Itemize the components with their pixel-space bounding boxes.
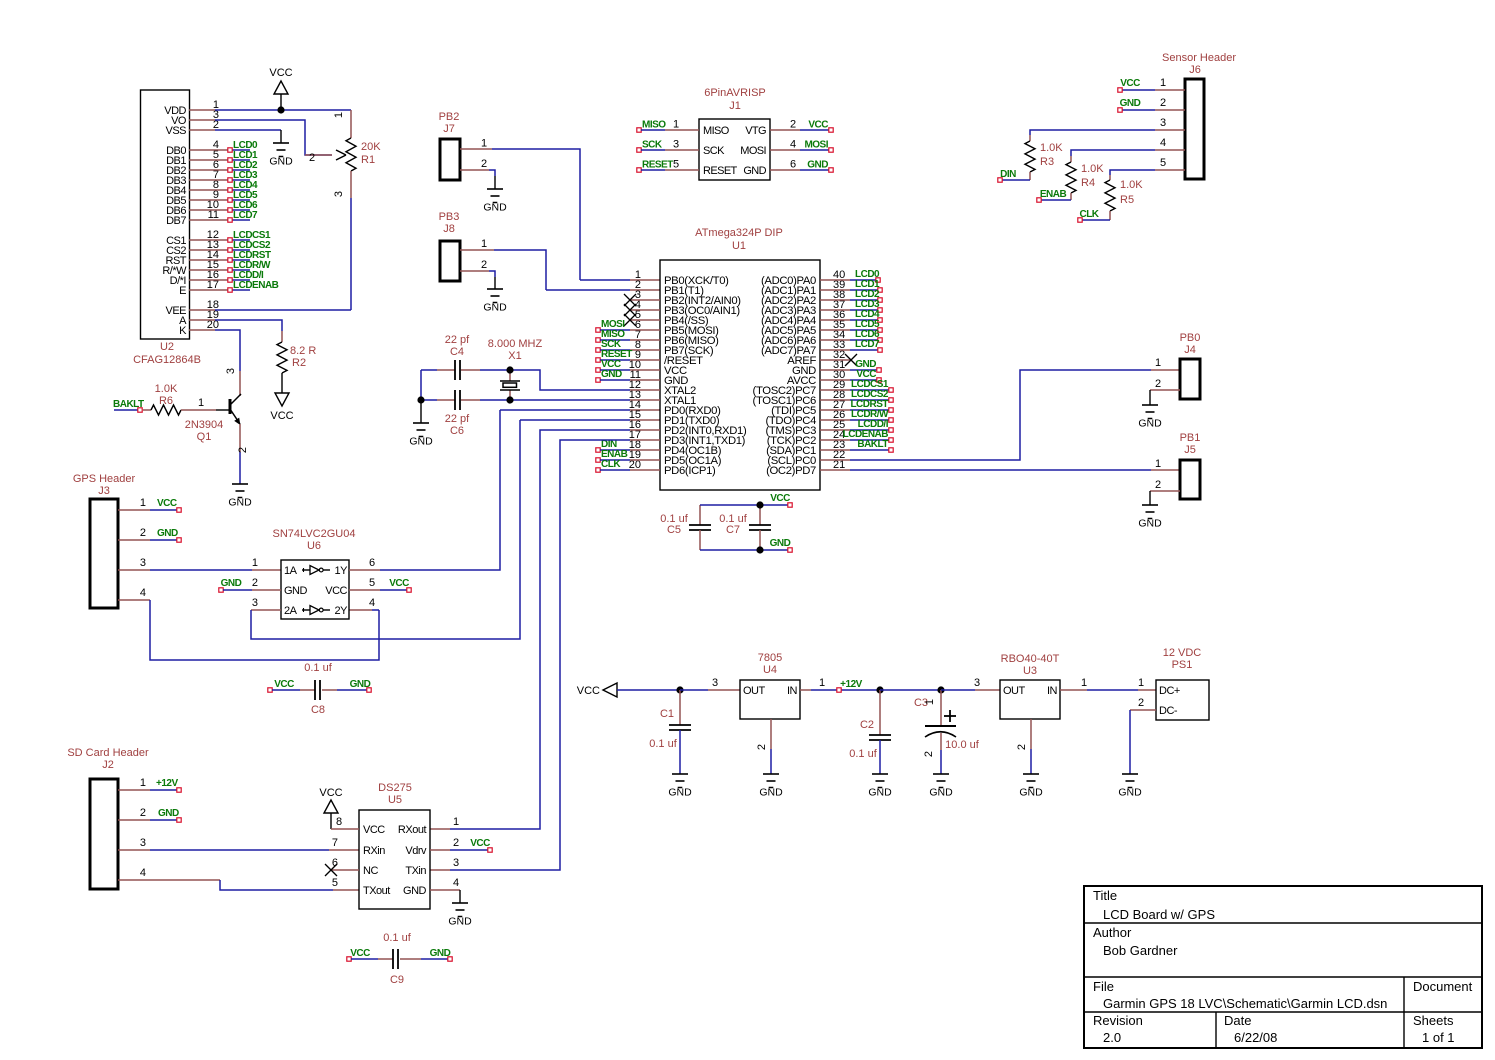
svg-text:6PinAVRISP: 6PinAVRISP <box>704 87 766 99</box>
ground symbol at Q1 emitter <box>232 483 248 485</box>
power symbol VCC arrow at regulator output <box>577 683 680 697</box>
svg-text:1A: 1A <box>284 565 298 577</box>
wire J6 pin2 / net GND <box>1118 97 1185 112</box>
svg-text:4: 4 <box>140 867 146 879</box>
svg-text:3: 3 <box>673 139 679 151</box>
svg-text:Q1: Q1 <box>197 431 212 443</box>
svg-text:3: 3 <box>140 557 146 569</box>
title block frame <box>1084 886 1482 1048</box>
junction at C6/ground <box>417 396 424 403</box>
svg-text:VCC: VCC <box>577 685 600 697</box>
svg-text:File: File <box>1093 979 1114 994</box>
regulator U4 7805 body <box>740 652 800 719</box>
wire U3 IN pin1 to PS1 DC+ pin1 <box>1060 677 1156 690</box>
svg-text:2: 2 <box>237 447 249 453</box>
wire U1 stub / net LCD0 <box>820 269 880 282</box>
wire J3 pin1 / net VCC <box>118 497 181 512</box>
capacitor C6 22pf <box>445 390 470 437</box>
U2 pin names <box>162 105 187 337</box>
no-connect X at U1 pin 4 <box>624 304 660 316</box>
svg-text:U4: U4 <box>763 664 777 676</box>
svg-text:GND: GND <box>743 165 766 177</box>
svg-text:RXin: RXin <box>363 845 385 857</box>
svg-text:1: 1 <box>453 816 459 828</box>
wire U2 pin stub / net LCD4 <box>189 180 258 192</box>
wire U2 pin stub / net LCD6 <box>189 200 258 212</box>
capacitor C2 0.1uf <box>849 690 891 774</box>
svg-text:R5: R5 <box>1120 194 1134 206</box>
inverter U6 SN74LVC2GU04 body <box>273 528 356 619</box>
svg-text:2: 2 <box>790 119 796 131</box>
svg-text:DC+: DC+ <box>1159 685 1180 697</box>
wire J1 pin 2 / net VCC <box>770 119 833 133</box>
svg-text:Author: Author <box>1093 925 1132 940</box>
junction at C2 <box>876 686 883 693</box>
svg-text:J6: J6 <box>1189 64 1201 76</box>
svg-text:2.0: 2.0 <box>1103 1030 1121 1045</box>
wire XTAL1 pin13 to crystal and C6 <box>421 399 660 401</box>
svg-text:2: 2 <box>756 744 768 750</box>
svg-text:3: 3 <box>712 677 718 689</box>
svg-text:DS275: DS275 <box>378 782 412 794</box>
svg-text:VCC: VCC <box>274 679 294 690</box>
svg-text:RBO40-40T: RBO40-40T <box>1001 653 1060 665</box>
svg-text:2: 2 <box>140 807 146 819</box>
svg-text:Vdrv: Vdrv <box>405 845 427 857</box>
ground symbol at J5 <box>1142 504 1158 506</box>
capacitor C3 10.0uf polarized <box>914 690 980 774</box>
wire R3 / net DIN <box>998 169 1030 182</box>
svg-text:Document: Document <box>1413 979 1473 994</box>
svg-text:3: 3 <box>1160 117 1166 129</box>
wire U3 GND pin2 to ground <box>1016 719 1031 774</box>
wire J2 pin4 to U5 TXout <box>118 867 359 890</box>
wire U1 stub / net LCD4 <box>820 309 882 322</box>
svg-text:Sensor Header: Sensor Header <box>1162 52 1236 64</box>
svg-text:CLK: CLK <box>601 459 621 470</box>
svg-text:U1: U1 <box>732 240 746 252</box>
svg-text:E: E <box>179 285 186 297</box>
svg-text:8: 8 <box>336 816 342 828</box>
wire U2 pin stub / net LCDCS2 <box>189 240 271 252</box>
junction crystal bottom <box>506 396 513 403</box>
svg-text:2: 2 <box>1016 744 1028 750</box>
svg-text:0.1 uf: 0.1 uf <box>649 738 677 750</box>
resistor R2 8.2R <box>277 342 316 393</box>
svg-text:VTG: VTG <box>745 125 766 137</box>
U5 left pin numbers <box>332 837 338 889</box>
svg-text:Bob Gardner: Bob Gardner <box>1103 943 1178 958</box>
capacitor C8 0.1uf with VCC / GND labels <box>268 662 371 716</box>
svg-text:GND: GND <box>1138 418 1162 430</box>
wire J2 pin2 / net GND <box>118 807 181 822</box>
svg-text:GND: GND <box>929 787 953 799</box>
svg-text:7805: 7805 <box>758 652 782 664</box>
svg-text:VCC: VCC <box>1120 78 1140 89</box>
svg-text:SCK: SCK <box>703 145 725 157</box>
svg-text:J2: J2 <box>102 759 114 771</box>
wire U2 pin stub / net LCDRST <box>189 250 271 262</box>
svg-text:VCC: VCC <box>470 838 490 849</box>
connector J2 SD Card Header body <box>67 747 149 889</box>
svg-text:22 pf: 22 pf <box>445 413 470 425</box>
wire U2 pin stub / net LCD7 <box>189 210 258 222</box>
svg-text:VCC: VCC <box>270 410 293 422</box>
svg-text:RESET: RESET <box>703 165 738 177</box>
connector J1 6PinAVRISP body <box>699 87 770 180</box>
svg-text:OUT: OUT <box>1003 685 1026 697</box>
wire VSS pin2 to ground <box>189 130 281 143</box>
svg-text:3: 3 <box>252 597 258 609</box>
wire U1 stub / net ENAB <box>596 449 660 462</box>
wire U1 PD2 pin16 to U5 RXout <box>430 430 660 829</box>
svg-text:0.1 uf: 0.1 uf <box>304 662 332 674</box>
svg-text:3: 3 <box>453 857 459 869</box>
wire U2 pin stub / net LCDD/I <box>189 270 264 282</box>
svg-text:1Y: 1Y <box>335 565 349 577</box>
svg-text:K: K <box>179 325 187 337</box>
svg-text:PB1: PB1 <box>1180 432 1201 444</box>
wire R4 / net ENAB <box>1037 189 1071 202</box>
svg-text:1 of 1: 1 of 1 <box>1422 1030 1455 1045</box>
svg-text:1.0K: 1.0K <box>1081 163 1104 175</box>
svg-text:Date: Date <box>1224 1013 1251 1028</box>
svg-text:4: 4 <box>790 139 796 151</box>
no-connect X at U1 pin 5 <box>624 314 660 326</box>
wire U1 stub / net VCC <box>820 369 881 382</box>
svg-text:C5: C5 <box>667 524 681 536</box>
wire U1 pin22 to J4 pin1 <box>820 370 1180 460</box>
svg-text:GND: GND <box>269 156 293 168</box>
junction VDD/VCC <box>277 106 284 113</box>
wire PS1 DC- pin2 to ground <box>1130 697 1156 774</box>
wire J7 pin2 to ground <box>460 158 495 189</box>
svg-text:3: 3 <box>225 368 237 374</box>
wire U1 pin21 to J5 pin1 <box>820 469 1180 471</box>
svg-text:GND: GND <box>807 160 828 171</box>
wire C4/C6 to ground <box>420 400 422 423</box>
wire U4 GND pin2 to ground <box>756 719 771 774</box>
svg-text:X1: X1 <box>508 350 521 362</box>
svg-text:2: 2 <box>481 158 487 170</box>
wire J2 pin3 to U5 RXin <box>118 837 359 850</box>
wire U1 stub / net LCD6 <box>820 329 882 342</box>
wire J3 pin4 to U6 2Y <box>118 587 379 660</box>
wire J6 pin1 / net VCC <box>1118 77 1185 92</box>
svg-text:LCD Board w/ GPS: LCD Board w/ GPS <box>1103 907 1215 922</box>
wire U1 stub / net LCDCS1 <box>820 379 893 392</box>
capacitor C5 0.1uf <box>660 505 711 550</box>
wire U1 stub / net GND <box>596 369 660 382</box>
wire VDD pin1 to VCC and R1 pin1 <box>189 109 351 111</box>
svg-text:5: 5 <box>369 577 375 589</box>
svg-text:2: 2 <box>1138 697 1144 709</box>
wire J8 pin2 to ground <box>460 259 495 289</box>
svg-text:R2: R2 <box>292 357 306 369</box>
power symbol VCC at U5 pin8 <box>319 787 359 829</box>
svg-text:GND: GND <box>350 679 371 690</box>
connector J5 PB1 body <box>1155 432 1200 499</box>
resistor R4 1.0K <box>1066 162 1104 193</box>
svg-text:J8: J8 <box>443 223 455 235</box>
svg-text:U2: U2 <box>160 341 174 353</box>
svg-text:1: 1 <box>333 112 345 118</box>
svg-text:J3: J3 <box>98 485 110 497</box>
svg-text:Title: Title <box>1093 888 1117 903</box>
svg-text:BAKLT: BAKLT <box>857 439 888 450</box>
svg-text:GND: GND <box>759 787 783 799</box>
svg-text:1: 1 <box>673 119 679 131</box>
wire U2 pin stub / net LCDCS1 <box>189 230 271 242</box>
wire U1 stub / net LCDCS2 <box>820 389 893 402</box>
svg-text:SN74LVC2GU04: SN74LVC2GU04 <box>273 528 356 540</box>
svg-text:ENAB: ENAB <box>1040 189 1067 200</box>
svg-text:2Y: 2Y <box>335 605 349 617</box>
svg-text:22 pf: 22 pf <box>445 334 470 346</box>
ground symbol at J7 <box>487 188 503 190</box>
wire U2 pin stub / net LCD3 <box>189 170 258 182</box>
svg-text:VCC: VCC <box>319 787 342 799</box>
svg-text:5: 5 <box>673 159 679 171</box>
svg-text:C8: C8 <box>311 704 325 716</box>
connector J3 GPS Header body <box>73 473 136 608</box>
resistor R5 1.0K <box>1105 179 1143 211</box>
wire U6 2A pin3 to U1 PD1 pin15 <box>251 420 660 639</box>
svg-text:GND: GND <box>409 436 433 448</box>
svg-text:MOSI: MOSI <box>804 140 828 151</box>
svg-text:2: 2 <box>1155 378 1161 390</box>
capacitor C1 0.1uf <box>649 690 691 774</box>
svg-text:GND: GND <box>668 787 692 799</box>
svg-text:2: 2 <box>309 152 315 164</box>
svg-text:IN: IN <box>787 685 798 697</box>
svg-text:LCD7: LCD7 <box>233 210 258 221</box>
ground symbol at U2 VSS <box>273 142 289 144</box>
wire U1 stub / net LCDRST <box>820 399 893 412</box>
svg-text:GND: GND <box>1019 787 1043 799</box>
title block texts <box>1093 888 1473 1045</box>
svg-text:0.1 uf: 0.1 uf <box>383 932 411 944</box>
wire U2 pin stub / net LCD2 <box>189 160 258 172</box>
svg-text:GND: GND <box>221 578 242 589</box>
svg-text:3: 3 <box>333 191 345 197</box>
no-connect X at U1 pin 32 AREF <box>820 354 857 366</box>
wire U1 stub / net LCDENAB <box>820 429 893 442</box>
wire J4 pin2 to ground <box>1150 390 1180 405</box>
svg-text:4: 4 <box>140 587 146 599</box>
svg-text:GPS Header: GPS Header <box>73 473 136 485</box>
svg-text:4: 4 <box>1160 137 1166 149</box>
wire J8 pin1 to U1 PB1 pin2 <box>460 238 660 290</box>
wire U1 stub / net LCDD/I <box>820 419 893 432</box>
wire U1 stub / net LCD2 <box>820 289 882 302</box>
svg-text:U5: U5 <box>388 794 402 806</box>
wire J1 pin 3 / net SCK <box>637 139 699 153</box>
ground symbol at PS1 <box>1122 773 1138 775</box>
wire C2 to C3 <box>880 689 941 691</box>
wire U1 stub / net SCK <box>596 339 660 352</box>
wire R6 to Q1 base <box>181 397 229 410</box>
wire J1 pin 4 / net MOSI <box>770 139 833 153</box>
svg-text:GND: GND <box>1118 787 1142 799</box>
no-connect X at U1 pin 3 <box>624 294 660 306</box>
connector J8 PB3 body <box>439 211 460 281</box>
svg-text:1: 1 <box>924 699 936 705</box>
power supply PS1 12 VDC body <box>1156 647 1209 720</box>
resistor R6 1.0K <box>151 383 181 415</box>
wire U1 stub / net LCD1 <box>820 279 882 292</box>
svg-text:GND: GND <box>601 369 622 380</box>
svg-text:LCDENAB: LCDENAB <box>233 280 279 291</box>
wire U2 pin stub / net LCD1 <box>189 150 258 162</box>
svg-text:1.0K: 1.0K <box>155 383 178 395</box>
wire C1 to U4 OUT pin3 <box>680 677 740 690</box>
svg-text:DIN: DIN <box>1000 169 1016 180</box>
wire U1 stub / net CLK <box>596 459 660 472</box>
svg-text:7: 7 <box>332 837 338 849</box>
svg-text:VCC: VCC <box>389 578 409 589</box>
svg-text:2: 2 <box>923 751 935 757</box>
wire J3 pin3 to U6 1A <box>118 557 281 570</box>
svg-text:J1: J1 <box>729 100 741 112</box>
svg-text:Revision: Revision <box>1093 1013 1143 1028</box>
svg-text:SD Card Header: SD Card Header <box>67 747 149 759</box>
svg-text:21: 21 <box>833 459 845 471</box>
svg-text:6: 6 <box>790 159 796 171</box>
svg-text:12 VDC: 12 VDC <box>1163 647 1202 659</box>
svg-text:1: 1 <box>1081 677 1087 689</box>
svg-text:6: 6 <box>332 857 338 869</box>
no-connect X at U5 pin6 NC <box>325 864 359 876</box>
svg-text:PB2: PB2 <box>439 111 460 123</box>
svg-text:GND: GND <box>403 885 427 897</box>
wire U5 Vdrv pin2 / net VCC <box>430 837 492 852</box>
svg-text:J7: J7 <box>443 123 455 135</box>
svg-text:0.1 uf: 0.1 uf <box>849 748 877 760</box>
svg-text:MOSI: MOSI <box>740 145 766 157</box>
wire U5 GND pin4 to ground <box>430 877 460 903</box>
wire U2 pin stub / net LCDR/W <box>189 260 271 272</box>
U2 pin numbers <box>207 99 219 331</box>
svg-text:C4: C4 <box>450 346 464 358</box>
wire U1 stub / net GND <box>820 359 881 372</box>
wire J6 pin3 to R3 <box>1030 117 1185 141</box>
svg-text:VSS: VSS <box>165 125 186 137</box>
ground symbol at U3 <box>1023 773 1039 775</box>
svg-text:(OC2)PD7: (OC2)PD7 <box>766 465 816 477</box>
svg-text:6: 6 <box>369 557 375 569</box>
svg-text:J4: J4 <box>1184 344 1196 356</box>
svg-text:GND: GND <box>868 787 892 799</box>
svg-text:J5: J5 <box>1184 444 1196 456</box>
svg-text:C7: C7 <box>726 524 740 536</box>
svg-text:1: 1 <box>140 777 146 789</box>
connector J6 Sensor Header body <box>1162 52 1236 179</box>
svg-text:U6: U6 <box>307 540 321 552</box>
svg-text:1: 1 <box>1155 458 1161 470</box>
svg-text:VCC: VCC <box>157 498 177 509</box>
svg-text:1: 1 <box>140 497 146 509</box>
svg-text:Garmin GPS 18 LVC\Schematic\Ga: Garmin GPS 18 LVC\Schematic\Garmin LCD.d… <box>1103 996 1387 1011</box>
svg-text:20: 20 <box>629 459 641 471</box>
svg-text:1: 1 <box>819 677 825 689</box>
microcontroller U1 ATmega324P DIP body <box>660 227 820 490</box>
wire C3 to U3 OUT pin3 <box>941 677 1000 690</box>
connector U2 CFAG12864B body <box>141 90 190 339</box>
svg-text:LCD7: LCD7 <box>855 339 880 350</box>
svg-text:3: 3 <box>974 677 980 689</box>
svg-text:2: 2 <box>252 577 258 589</box>
ground symbol at C3 <box>933 773 949 775</box>
wire U1 stub / net RESET <box>596 349 660 362</box>
wire J3 pin2 / net GND <box>118 527 181 542</box>
svg-text:2N3904: 2N3904 <box>185 419 224 431</box>
svg-text:2: 2 <box>453 837 459 849</box>
svg-text:8.2 R: 8.2 R <box>290 345 316 357</box>
transistor Q1 2N3904 <box>185 394 241 443</box>
svg-text:VCC: VCC <box>363 824 385 836</box>
svg-text:IN: IN <box>1047 685 1058 697</box>
wire U1 stub / net LCDR/W <box>820 409 893 422</box>
svg-text:R3: R3 <box>1040 156 1054 168</box>
svg-text:CLK: CLK <box>1079 209 1099 220</box>
svg-text:1: 1 <box>252 557 258 569</box>
svg-text:1: 1 <box>1160 77 1166 89</box>
svg-text:C9: C9 <box>390 974 404 986</box>
transceiver U5 DS275 body <box>359 782 430 909</box>
svg-text:GND: GND <box>448 916 472 928</box>
wire U6 pin2 / net GND <box>219 578 281 592</box>
svg-text:PB3: PB3 <box>439 211 460 223</box>
svg-text:DC-: DC- <box>1159 705 1178 717</box>
svg-text:GND: GND <box>1120 98 1141 109</box>
svg-text:1: 1 <box>1155 357 1161 369</box>
svg-text:DB7: DB7 <box>166 215 186 227</box>
wire U1 stub / net MISO <box>596 329 660 342</box>
svg-text:11: 11 <box>208 209 219 221</box>
crystal X1 8.000 MHZ <box>488 338 543 400</box>
wire J1 pin 5 / net RESET <box>637 159 699 173</box>
svg-text:2: 2 <box>1155 479 1161 491</box>
wire U1 stub / net VCC <box>596 359 660 372</box>
svg-text:GND: GND <box>1138 518 1162 530</box>
wire C5/C7 top / net VCC <box>700 493 792 507</box>
svg-text:2A: 2A <box>284 605 298 617</box>
svg-text:GND: GND <box>483 302 507 314</box>
U1 left pin names <box>664 275 747 477</box>
wire U4 IN pin1 / net +12V <box>800 677 880 692</box>
svg-text:+12V: +12V <box>156 778 178 789</box>
svg-text:6/22/08: 6/22/08 <box>1234 1030 1277 1045</box>
wire U1 PD3 pin17 to U5 TXin <box>430 440 660 870</box>
svg-text:OUT: OUT <box>743 685 766 697</box>
svg-text:MISO: MISO <box>642 120 666 131</box>
wire crystal top to C4 <box>421 370 510 400</box>
svg-text:GND: GND <box>284 585 308 597</box>
wire U2 pin stub / net LCD0 <box>189 140 258 152</box>
svg-text:R4: R4 <box>1081 177 1095 189</box>
svg-text:GND: GND <box>228 497 252 509</box>
svg-text:VCC: VCC <box>808 120 828 131</box>
inverter gate symbol U6-B <box>302 609 310 611</box>
wire VO pin3 to R1 wiper <box>189 120 332 155</box>
svg-text:2: 2 <box>140 527 146 539</box>
junction C7 bottom <box>756 546 763 553</box>
svg-text:SCK: SCK <box>642 140 663 151</box>
svg-text:ATmega324P DIP: ATmega324P DIP <box>695 227 783 239</box>
svg-text:NC: NC <box>363 865 378 877</box>
svg-text:10.0 uf: 10.0 uf <box>945 739 980 751</box>
